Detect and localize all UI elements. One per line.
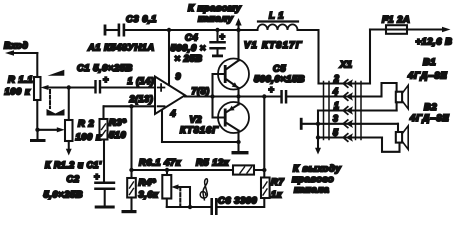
resistor R4 [127,170,159,200]
svg-text:100 к: 100 к [76,131,102,142]
wire R3 to C2 [103,140,105,182]
wire pin5 to B2 bottom [382,138,400,152]
svg-text:R6.1 47к: R6.1 47к [139,157,182,168]
transistor V2 [180,97,249,143]
node V1 collector rail [236,28,240,32]
svg-text:С3 0,1: С3 0,1 [126,13,157,24]
svg-text:С1 5,0×25В: С1 5,0×25В [77,62,133,73]
svg-text:1 (14): 1 (14) [128,76,155,86]
wire pin3 to B2 top [397,124,399,132]
svg-text:КТ816Г: КТ816Г [180,124,219,135]
pin 9 power wire [168,30,170,85]
node R2 top [67,85,71,89]
pin 1 row [318,101,397,115]
svg-text:4: 4 [170,109,177,119]
svg-text:V2: V2 [190,114,203,125]
pin 2 row [319,74,371,88]
wire pin2 corner to R3 [102,106,104,119]
wire pin4 rail [162,141,239,143]
svg-text:7(8): 7(8) [192,86,210,96]
wire pin4 to B1 top [382,83,397,97]
wire pin1 to B1 bottom [396,102,398,110]
svg-text:В1: В1 [423,56,436,67]
capacitor C5 [254,63,305,104]
capacitor C4 [171,30,226,64]
svg-text:2: 2 [333,74,339,84]
svg-text:Вход: Вход [4,41,28,51]
pin 5 row [318,128,382,142]
gang direction wedge top [48,70,65,76]
wire pin 2 [104,105,155,107]
svg-text:R3*: R3* [109,117,127,128]
svg-text:4: 4 [332,87,338,97]
bottom wire R6.1 to C6 [167,206,211,208]
node feedback junction R4 [129,168,133,172]
svg-text:X1: X1 [339,59,353,70]
svg-text:R 2: R 2 [78,118,94,129]
common vertical with arrow to right channel output [315,111,321,155]
svg-text:2(13): 2(13) [129,94,154,104]
ground under R4 [122,198,137,214]
potentiometer R1.1 [5,74,41,101]
svg-text:С2: С2 [67,173,80,184]
resistor R7 [261,176,284,200]
op-amp A1 [87,42,185,115]
speaker B2 [396,101,450,149]
svg-text:1к: 1к [271,189,283,200]
arrow to right channel [188,2,242,30]
feedback wire horizontal [132,169,265,171]
node feedback to R7 [262,168,266,172]
capacitor C1 [77,62,133,94]
svg-text:4ГД–8Е: 4ГД–8Е [409,112,450,123]
svg-text:+: + [220,32,226,42]
node R6.1 top [165,168,169,172]
speaker B1 [396,56,448,109]
arrow +12,6 V [416,27,453,47]
svg-text:R5 12к: R5 12к [196,157,230,168]
pin 4 wire [161,111,163,143]
node R7 output [262,94,266,98]
wiper of R6.1 [171,184,190,207]
svg-text:100 к: 100 к [5,86,31,97]
wire bases [213,74,224,118]
node wiper bottom [188,205,192,209]
svg-text:С4: С4 [185,32,198,43]
svg-text:500,0 ×: 500,0 × [171,42,206,53]
svg-text:канала: канала [294,184,329,195]
input terminal Вход [4,41,37,78]
node V1 base [210,94,214,98]
svg-text:+: + [94,172,100,182]
svg-text:500,0×15В: 500,0×15В [254,73,305,84]
svg-text:V1 КТ817Г: V1 КТ817Г [244,39,303,50]
wire C1 to op-amp pin 1 [101,86,155,88]
svg-text:F1 2А: F1 2А [382,14,410,25]
capacitor C3 [106,13,157,37]
gang link dashed R6.1 [179,188,181,206]
gang link dashed [49,90,51,108]
svg-text:+: + [269,85,275,95]
resistor R5 [196,157,254,175]
svg-text:К правому: К правому [188,2,242,13]
resistor R2 [65,118,102,143]
wire R7 to output [263,97,265,178]
wiper arrow of R1.1 [41,85,95,90]
wiper arrow into R2 [57,127,65,132]
wire pot bottom [37,100,58,130]
node pot bottom [35,128,39,132]
node feedback at pin 2 [129,104,133,108]
svg-text:R4*: R4* [139,177,157,188]
svg-text:5: 5 [333,128,338,138]
svg-text:+: + [103,75,109,85]
svg-text:9: 9 [176,72,182,82]
svg-text:правого: правого [292,173,334,184]
svg-text:+12,6 В: +12,6 В [416,36,453,47]
terminal bar C3 left [104,25,107,36]
svg-text:3,6к: 3,6к [139,189,160,200]
svg-text:каналу: каналу [198,13,234,24]
svg-text:4ГД–8Е: 4ГД–8Е [407,70,448,81]
transistor V1 [218,30,303,97]
svg-text:× 25В: × 25В [175,53,203,64]
chassis bar [300,118,303,130]
svg-text:С5: С5 [273,63,286,74]
node pin9 rail [167,28,171,32]
feedback wire from pin 2 down [130,106,132,170]
pin 4 row output [287,87,381,101]
ground under C2 [95,190,115,209]
treble clef volume symbol [200,179,207,200]
ground under V2 [232,142,249,154]
svg-text:510: 510 [109,129,127,140]
top rail wire [125,30,318,84]
node emitters [236,94,240,98]
connector X1 body [324,59,362,140]
pin 3 row [303,114,398,129]
svg-text:К выходу: К выходу [293,163,341,174]
resistor R3 [100,117,128,141]
svg-text:А1 К548УН1А: А1 К548УН1А [87,42,155,53]
arrow to R1.2 [45,141,102,170]
output wire 7(8) [185,95,280,97]
svg-text:L 1: L 1 [269,10,284,21]
svg-text:R 1.1: R 1.1 [8,74,33,85]
svg-text:К R1.2 и С1': К R1.2 и С1' [45,160,102,170]
label к выходу правого канала [292,163,341,195]
svg-text:С6 3300: С6 3300 [218,195,258,206]
svg-text:5,0×25В: 5,0×25В [44,189,84,200]
wire R2 top to input line [68,88,70,121]
node V2 collector ground [236,140,240,144]
capacitor C2 [44,172,116,200]
wire fuse to connector pin 2 [369,30,371,84]
ground under pot [30,130,46,142]
gang direction wedge bottom [47,109,65,116]
potentiometer R6.1 [162,170,171,207]
svg-text:R7: R7 [271,176,284,187]
wire C6 to R7 [218,198,265,207]
svg-text:3: 3 [333,114,338,124]
fuse F1 [370,14,443,34]
svg-text:В2: В2 [424,101,437,112]
node C4 rail [215,28,219,32]
svg-text:1: 1 [334,101,339,111]
inductor L1 [258,10,299,31]
capacitor C6 [210,195,257,216]
